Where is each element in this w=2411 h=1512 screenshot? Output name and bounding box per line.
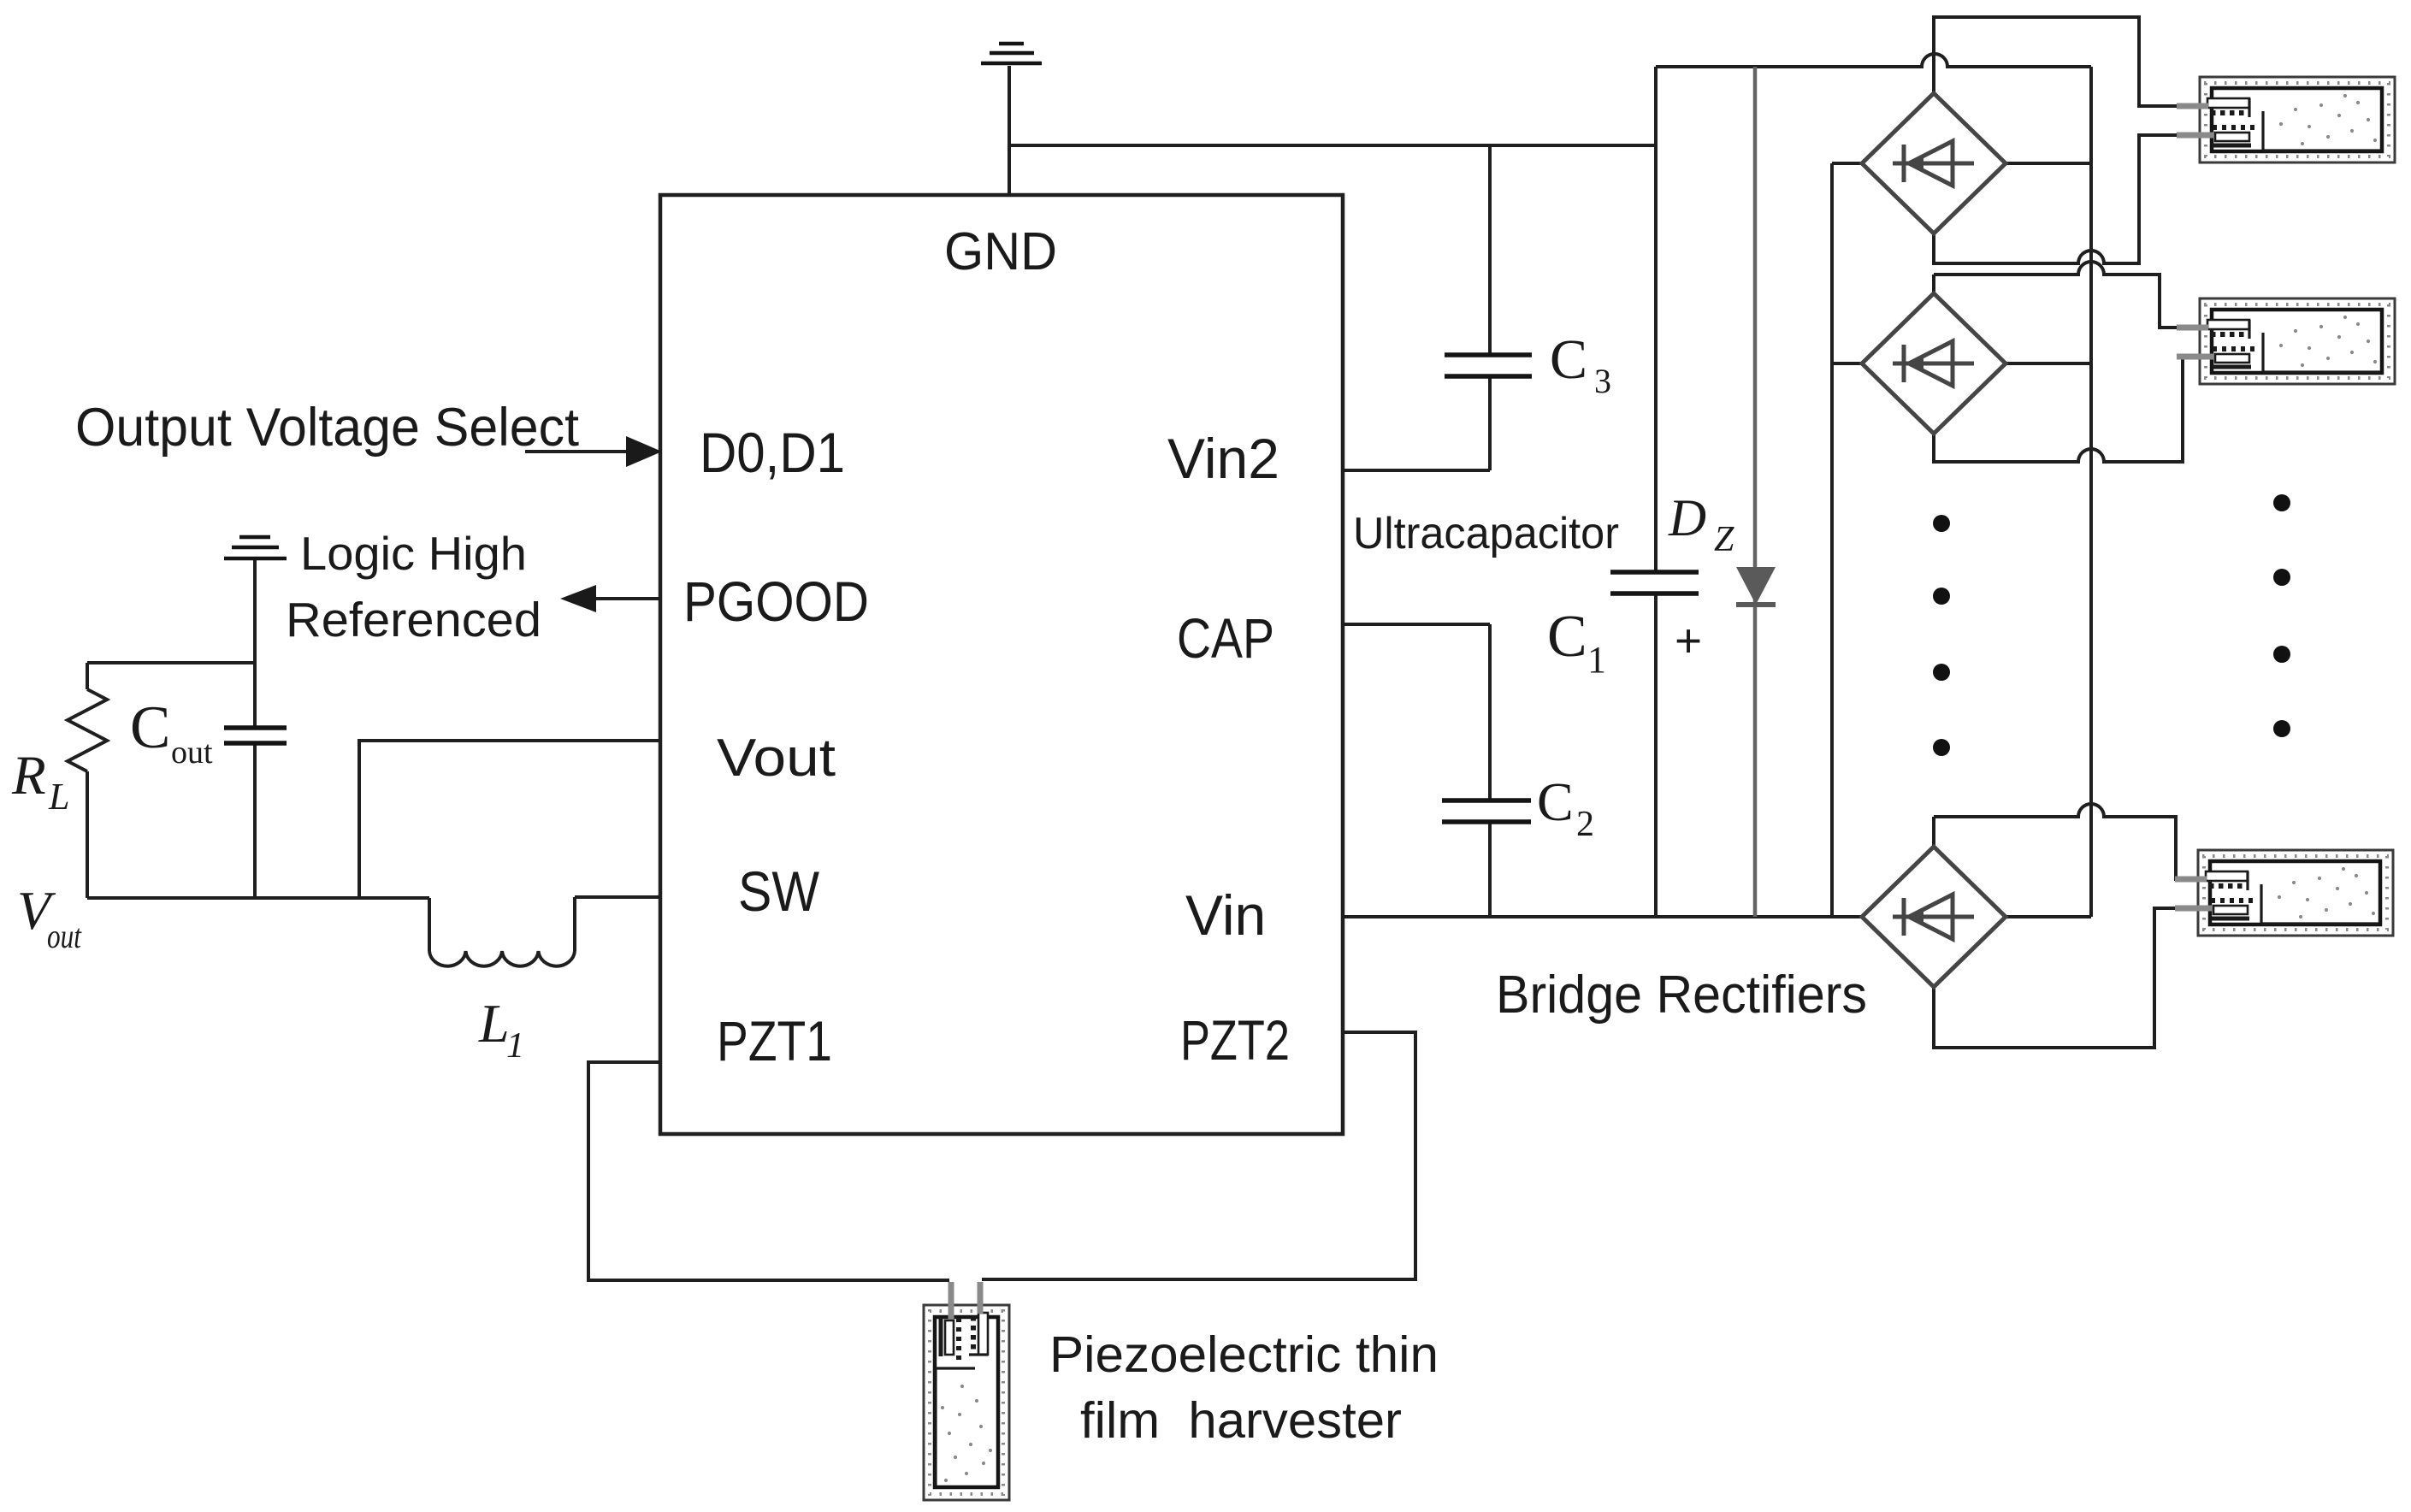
svg-text:L: L <box>478 993 510 1054</box>
svg-text:3: 3 <box>1594 362 1611 400</box>
svg-text:C: C <box>1550 328 1587 391</box>
svg-text:1: 1 <box>1587 639 1606 681</box>
svg-text:CAP: CAP <box>1177 606 1274 670</box>
svg-text:Logic High: Logic High <box>300 527 527 580</box>
svg-text:SW: SW <box>738 859 820 923</box>
svg-text:out: out <box>171 735 213 771</box>
svg-text:Vin2: Vin2 <box>1167 427 1279 490</box>
svg-text:C: C <box>1537 771 1574 832</box>
svg-text:PZT1: PZT1 <box>717 1009 832 1072</box>
svg-text:C: C <box>130 694 170 761</box>
svg-text:R: R <box>11 745 46 806</box>
svg-text:+: + <box>1675 614 1702 667</box>
svg-text:out: out <box>47 917 82 955</box>
svg-text:2: 2 <box>1576 805 1594 844</box>
svg-text:film harvester: film harvester <box>1080 1392 1402 1449</box>
svg-text:Ultracapacitor: Ultracapacitor <box>1353 509 1619 558</box>
svg-text:GND: GND <box>944 222 1057 281</box>
svg-text:D: D <box>1668 490 1706 547</box>
svg-text:Vout: Vout <box>717 729 836 788</box>
svg-text:Piezoelectric thin: Piezoelectric thin <box>1049 1326 1439 1383</box>
svg-text:Z: Z <box>1714 520 1734 559</box>
svg-text:L: L <box>48 776 69 818</box>
svg-text:PZT2: PZT2 <box>1180 1008 1290 1072</box>
svg-text:1: 1 <box>506 1026 524 1066</box>
svg-text:C: C <box>1547 604 1587 670</box>
svg-text:Referenced: Referenced <box>286 593 541 647</box>
svg-text:D0,D1: D0,D1 <box>700 421 845 484</box>
svg-text:PGOOD: PGOOD <box>683 570 869 633</box>
svg-text:Output Voltage Select: Output Voltage Select <box>75 398 579 458</box>
svg-text:Vin: Vin <box>1185 883 1266 947</box>
svg-text:Bridge Rectifiers: Bridge Rectifiers <box>1496 966 1867 1025</box>
